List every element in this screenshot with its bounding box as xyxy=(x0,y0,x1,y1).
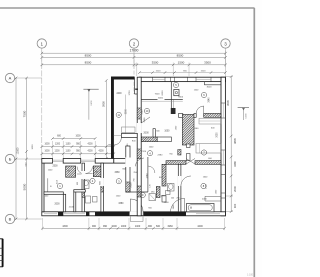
svg-text:900: 900 xyxy=(148,225,153,228)
corridor wall hatch pier xyxy=(126,182,130,192)
door arc hall xyxy=(136,158,144,166)
sheet frame right border xyxy=(253,8,255,277)
axis bubble A xyxy=(5,73,14,82)
svg-text:В: В xyxy=(9,217,12,222)
svg-text:1400: 1400 xyxy=(135,225,141,228)
room number 3 xyxy=(116,179,121,184)
svg-text:1500: 1500 xyxy=(156,71,162,73)
center wall hatch pier 3 xyxy=(137,149,141,159)
room number 2 xyxy=(90,178,95,183)
left wing dim extension lines xyxy=(52,141,54,159)
svg-text:8500: 8500 xyxy=(177,53,184,57)
svg-text:1000: 1000 xyxy=(32,144,34,150)
room number 1 xyxy=(57,183,62,188)
wall x74 lower xyxy=(74,190,76,212)
hatch pier x101 xyxy=(101,187,104,192)
axis line V horizontal xyxy=(15,218,42,220)
porch lines xyxy=(129,216,131,221)
door swing top right xyxy=(196,106,204,114)
bathroom door gap xyxy=(178,176,182,186)
north wall window 2 sill xyxy=(81,159,96,161)
svg-text:8500: 8500 xyxy=(85,53,92,57)
hall partition door arc xyxy=(114,138,122,146)
svg-text:1100: 1100 xyxy=(66,143,72,145)
entry door opening xyxy=(130,211,144,215)
vent block room 2 xyxy=(93,166,101,177)
bottom dimension line xyxy=(42,227,224,229)
wall stub west of vent xyxy=(179,114,183,118)
top wall window ticks xyxy=(152,77,154,81)
hatched wall horizontal rooms east part xyxy=(195,161,221,165)
hatched wall top of corridor xyxy=(141,137,157,142)
wardrobe strip below wall xyxy=(199,118,221,124)
door leaf center wall xyxy=(141,117,150,123)
small door arc corridor xyxy=(148,166,155,173)
svg-text:1500: 1500 xyxy=(201,71,207,73)
sheet frame top border xyxy=(0,7,255,9)
svg-text:4200: 4200 xyxy=(87,150,93,152)
entry niche bottom line xyxy=(135,93,140,95)
hall north wall chunk xyxy=(114,159,126,164)
courtyard vertical dimension 5950 xyxy=(105,81,107,159)
wall stub x154 xyxy=(153,129,155,137)
svg-text:5950: 5950 xyxy=(101,101,105,107)
wall east of vent with door xyxy=(194,114,196,118)
hall wardrobe line xyxy=(125,95,127,134)
svg-text:П500: П500 xyxy=(178,96,184,98)
interior wall vertical x82 (wc west) xyxy=(82,163,85,212)
svg-text:1000: 1000 xyxy=(164,131,170,133)
left wing upper dim row line xyxy=(53,138,96,140)
room number 4 xyxy=(147,151,152,156)
elevation mark courtyard xyxy=(83,88,98,90)
left wing north wall chunk 3 xyxy=(95,159,114,164)
svg-text:7500: 7500 xyxy=(22,110,26,117)
axis line A horizontal xyxy=(15,77,42,79)
svg-text:3380: 3380 xyxy=(114,172,120,174)
room number 8 xyxy=(201,183,206,188)
corridor wall door gap xyxy=(125,158,130,168)
svg-text:4400: 4400 xyxy=(197,225,203,228)
room number 5 xyxy=(173,82,178,87)
svg-text:1000: 1000 xyxy=(121,225,127,228)
center wall door gap xyxy=(137,123,142,133)
bathtub xyxy=(187,204,215,212)
svg-text:4200: 4200 xyxy=(87,143,93,145)
svg-text:1100: 1100 xyxy=(66,150,72,152)
interior wall vertical x101 (wc east) xyxy=(101,163,104,212)
right dimension ticks to wall xyxy=(225,76,233,78)
vent block room 1 xyxy=(66,166,76,177)
wall y190 horizontal wc xyxy=(74,190,86,192)
svg-text:3540: 3540 xyxy=(142,109,144,115)
room number 6 xyxy=(201,92,206,97)
left wing middle dim row line xyxy=(42,146,114,148)
interior wall room1/room1a horizontal xyxy=(44,192,63,194)
svg-text:1500: 1500 xyxy=(178,61,185,65)
axis line 2 vertical xyxy=(133,48,135,94)
svg-text:0.000: 0.000 xyxy=(246,113,248,119)
wall top corridor to center xyxy=(157,137,171,142)
svg-text:2400: 2400 xyxy=(116,93,122,95)
bottom dimension extension lines xyxy=(41,218,43,230)
svg-text:6000: 6000 xyxy=(162,90,164,96)
svg-text:3640: 3640 xyxy=(208,97,210,103)
top dimension row 1 xyxy=(42,52,226,54)
thick wall top of entry hall xyxy=(111,77,135,80)
svg-text:2000: 2000 xyxy=(54,204,60,206)
svg-text:1000: 1000 xyxy=(44,143,50,145)
axis line B horizontal xyxy=(15,158,42,160)
bathroom door arc xyxy=(181,176,191,186)
top dimension extension lines xyxy=(41,51,43,68)
hatch pier wc xyxy=(156,187,160,198)
svg-text:Б: Б xyxy=(9,157,12,162)
room number 7 xyxy=(201,150,206,155)
wall vertical wc west lower xyxy=(162,196,166,203)
hall partition wall y134 xyxy=(121,134,137,138)
corridor wall x126-130 xyxy=(126,146,130,192)
left vertical dimension line outer xyxy=(15,78,17,219)
south wall window sills xyxy=(44,213,57,215)
svg-text:2060: 2060 xyxy=(164,202,170,204)
thick wall west side of entry hall xyxy=(111,77,114,164)
svg-text:600: 600 xyxy=(156,225,161,228)
svg-text:2500: 2500 xyxy=(52,166,58,168)
right wing top wall xyxy=(140,77,226,81)
wc west door gap xyxy=(82,171,86,179)
corridor east wall xyxy=(147,157,149,192)
elevation mark right xyxy=(238,107,249,109)
svg-text:1:100: 1:100 xyxy=(247,274,254,277)
toilet wc right xyxy=(168,184,175,192)
top wall window sills xyxy=(153,78,166,80)
washer left wing wc xyxy=(86,196,91,203)
svg-text:3000: 3000 xyxy=(207,87,213,89)
east wall window 2 xyxy=(221,149,225,151)
axis bubble 2 xyxy=(129,39,138,48)
right vertical dimension line xyxy=(230,77,232,212)
svg-text:4300: 4300 xyxy=(62,225,68,228)
east wall joint ticks xyxy=(221,174,225,176)
entry niche west line xyxy=(134,77,136,94)
svg-text:990: 990 xyxy=(103,225,108,228)
room number 9 xyxy=(140,192,145,197)
hall shoe cabinet xyxy=(122,127,136,133)
room1 closet line xyxy=(47,178,49,192)
wall segment to east wall xyxy=(204,114,221,118)
east wall window 1 xyxy=(221,102,225,104)
svg-text:А: А xyxy=(9,76,12,81)
svg-text:2380: 2380 xyxy=(157,154,163,156)
left wing lower dim row line xyxy=(42,153,114,155)
room 5 south wall horizontal xyxy=(141,99,157,101)
svg-text:1290: 1290 xyxy=(161,196,167,198)
left wing north wall chunk 2 xyxy=(63,159,80,164)
axis bubble 3 xyxy=(221,39,230,48)
axis bubble V xyxy=(5,214,14,223)
room number hall xyxy=(116,112,121,117)
svg-text:3050: 3050 xyxy=(217,132,219,138)
svg-text:0.450: 0.450 xyxy=(91,100,93,106)
right wing east wall xyxy=(221,77,225,216)
south wall solid segments xyxy=(58,212,63,216)
hatch pier above bathroom wall xyxy=(178,150,181,156)
svg-text:1000: 1000 xyxy=(111,225,117,228)
svg-text:1960: 1960 xyxy=(167,225,173,228)
boiler room wall vertical xyxy=(170,82,172,114)
hatched wall vertical wc west xyxy=(162,164,166,186)
vent block right wing xyxy=(182,115,194,146)
north wall window 1 sill xyxy=(53,159,64,161)
bathroom door arc low xyxy=(171,198,185,211)
axis bubble B xyxy=(5,154,14,163)
sink left wing wc xyxy=(93,197,98,203)
svg-text:6000: 6000 xyxy=(158,97,164,99)
hatched wall horizontal rooms west part xyxy=(166,161,186,165)
window dimension row above top wall xyxy=(140,72,226,74)
corridor wall horizontal y192 xyxy=(126,191,148,193)
entry door swing arc xyxy=(130,199,143,212)
svg-text:3380: 3380 xyxy=(118,203,124,205)
svg-text:2000: 2000 xyxy=(144,133,150,135)
toilet left wing wc xyxy=(84,180,90,189)
axis line 3 vertical xyxy=(225,48,227,77)
center wall hatch pier 2 xyxy=(137,186,141,197)
svg-text:12500: 12500 xyxy=(17,147,20,154)
axis line 1 vertical xyxy=(41,48,43,158)
svg-text:1000: 1000 xyxy=(44,150,50,152)
left wing north wall chunk 1 xyxy=(42,159,53,164)
svg-text:1000: 1000 xyxy=(75,135,81,137)
svg-text:3000: 3000 xyxy=(131,182,133,188)
title block edge bottom left xyxy=(2,239,4,267)
svg-text:900: 900 xyxy=(92,225,97,228)
bathroom west wall xyxy=(178,164,181,212)
svg-text:2030: 2030 xyxy=(202,198,208,200)
svg-text:300: 300 xyxy=(233,203,237,208)
closet wall top right room xyxy=(203,82,205,85)
interior wall vertical x63.3 xyxy=(63,194,65,212)
hatch pier x82 xyxy=(82,190,85,198)
sink counter bathroom xyxy=(205,195,221,197)
south wall outline xyxy=(42,212,226,216)
boiler symbol xyxy=(174,90,179,96)
svg-text:3480: 3480 xyxy=(233,161,237,167)
washer wc right xyxy=(166,191,171,195)
wc east door gap xyxy=(100,178,104,186)
svg-text:3500: 3500 xyxy=(204,61,211,65)
svg-text:3000: 3000 xyxy=(125,108,127,114)
center wall hatch pier 1 xyxy=(137,108,141,119)
niche door mark xyxy=(135,89,138,90)
left wing west wall xyxy=(42,159,44,212)
svg-text:1200: 1200 xyxy=(55,143,61,145)
svg-text:5000: 5000 xyxy=(22,183,26,190)
left vertical dimension line inner xyxy=(26,78,28,219)
column pier xyxy=(171,108,176,114)
svg-text:2120: 2120 xyxy=(141,151,147,153)
svg-text:4200: 4200 xyxy=(98,150,104,152)
svg-text:1200: 1200 xyxy=(54,150,60,152)
svg-text:1780: 1780 xyxy=(147,173,149,179)
top dimension row 8500 3500 1500 3500 xyxy=(42,64,226,66)
svg-text:8500: 8500 xyxy=(85,61,92,65)
svg-text:1750: 1750 xyxy=(129,90,131,96)
center wall between hall and right wing xyxy=(137,77,141,216)
door arc room 1 xyxy=(77,167,85,175)
svg-text:3500: 3500 xyxy=(152,61,159,65)
bed room 7 xyxy=(196,144,221,154)
svg-text:2000: 2000 xyxy=(233,186,237,192)
axis bubble 1 xyxy=(37,39,46,48)
door X symbol xyxy=(186,159,195,165)
room number 10 xyxy=(144,108,149,113)
svg-text:2100: 2100 xyxy=(69,207,75,209)
svg-text:3805: 3805 xyxy=(233,138,237,144)
svg-text:7500: 7500 xyxy=(155,94,161,96)
washer symbol corridor xyxy=(149,194,156,201)
top dimension row 8500+8500 xyxy=(42,56,226,58)
svg-text:3505: 3505 xyxy=(226,100,230,106)
door arc room 2 xyxy=(86,167,93,174)
hall partition door line xyxy=(114,135,122,137)
wall below vent block xyxy=(187,144,191,148)
